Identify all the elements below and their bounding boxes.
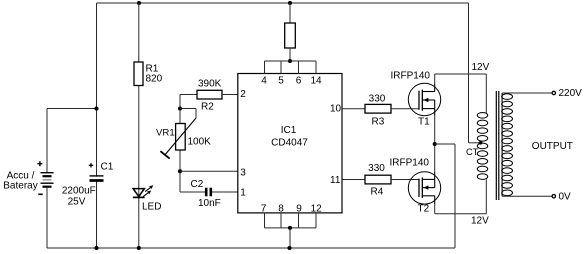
svg-text:11: 11 <box>330 175 341 186</box>
svg-text:C1: C1 <box>101 161 114 172</box>
svg-text:12: 12 <box>311 204 323 215</box>
svg-text:7: 7 <box>261 204 267 215</box>
svg-text:9: 9 <box>296 204 302 215</box>
svg-text:VR1: VR1 <box>156 127 175 138</box>
svg-text:6: 6 <box>296 75 302 86</box>
svg-text:390K: 390K <box>198 79 222 90</box>
svg-text:IRFP140: IRFP140 <box>391 70 431 81</box>
svg-text:C2: C2 <box>191 179 204 190</box>
svg-text:14: 14 <box>310 75 322 86</box>
svg-text:330: 330 <box>368 163 385 174</box>
svg-text:IC1: IC1 <box>281 125 297 136</box>
svg-text:330: 330 <box>369 93 386 104</box>
svg-text:2200uF: 2200uF <box>62 186 96 197</box>
svg-text:220V: 220V <box>559 88 583 99</box>
svg-text:CT: CT <box>466 147 479 157</box>
svg-text:R3: R3 <box>372 117 385 128</box>
svg-text:10: 10 <box>330 103 342 114</box>
svg-text:IRFP140: IRFP140 <box>390 158 430 169</box>
svg-text:R4: R4 <box>371 187 384 198</box>
svg-text:10nF: 10nF <box>198 198 221 209</box>
svg-text:8: 8 <box>278 204 284 215</box>
svg-text:0V: 0V <box>559 191 572 202</box>
svg-text:LED: LED <box>142 202 161 213</box>
svg-text:12V: 12V <box>471 216 489 227</box>
svg-text:CD4047: CD4047 <box>271 138 308 149</box>
svg-text:4: 4 <box>261 75 267 86</box>
svg-text:5: 5 <box>278 75 284 86</box>
svg-text:T2: T2 <box>418 204 430 215</box>
svg-text:T1: T1 <box>418 117 430 128</box>
svg-text:820: 820 <box>146 74 163 85</box>
svg-text:3: 3 <box>240 167 246 178</box>
svg-text:2: 2 <box>240 89 246 100</box>
svg-text:OUTPUT: OUTPUT <box>532 141 573 152</box>
svg-text:12V: 12V <box>472 62 490 73</box>
svg-text:100K: 100K <box>188 136 212 147</box>
svg-text:25V: 25V <box>68 197 86 208</box>
svg-text:R2: R2 <box>201 101 214 112</box>
svg-text:Bateray: Bateray <box>3 181 37 192</box>
svg-text:1: 1 <box>240 187 246 198</box>
